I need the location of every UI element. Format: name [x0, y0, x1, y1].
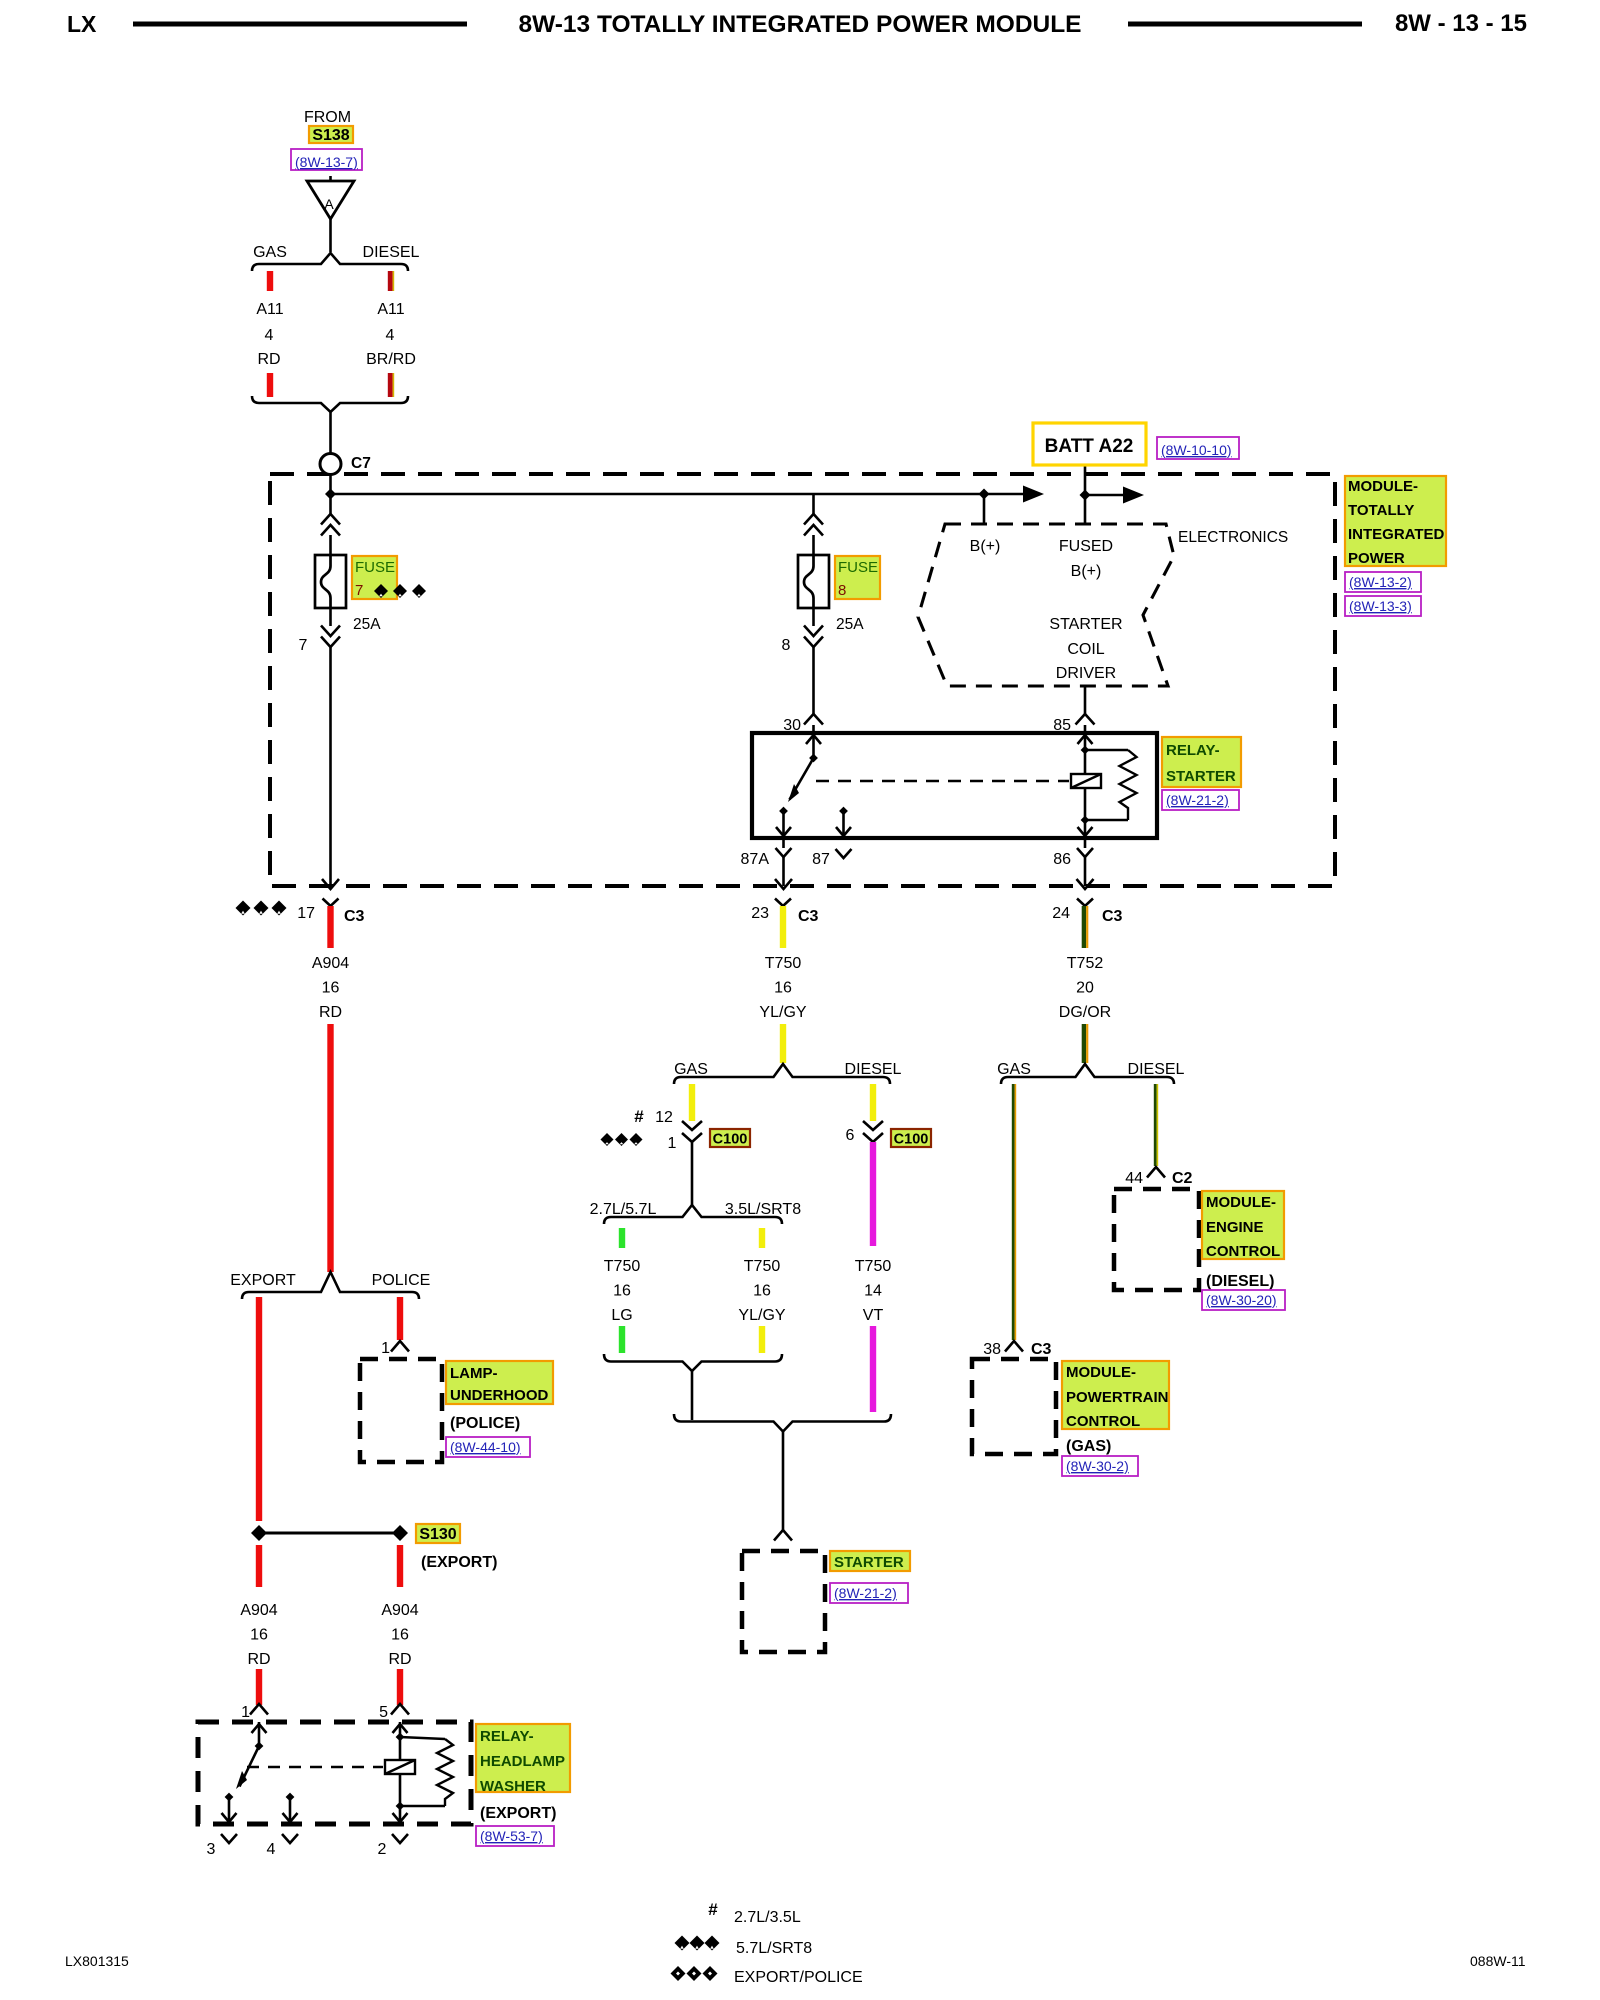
svg-text:HEADLAMP: HEADLAMP [480, 1753, 565, 1770]
svg-text:STARTER: STARTER [834, 1554, 904, 1571]
svg-text:B(+): B(+) [1071, 563, 1102, 580]
svg-text:BATT A22: BATT A22 [1045, 436, 1134, 457]
svg-text:STARTER: STARTER [1049, 616, 1122, 633]
svg-text:T750: T750 [744, 1258, 781, 1275]
svg-text:(8W-30-20): (8W-30-20) [1206, 1292, 1277, 1308]
svg-text:#: # [708, 1900, 718, 1919]
svg-text:B(+): B(+) [970, 538, 1001, 555]
svg-text:CONTROL: CONTROL [1066, 1413, 1140, 1430]
svg-text:POWER: POWER [1348, 550, 1405, 567]
svg-text:1: 1 [668, 1135, 677, 1152]
svg-text:UNDERHOOD: UNDERHOOD [450, 1387, 549, 1404]
svg-text:7: 7 [355, 582, 363, 599]
svg-text:YL/GY: YL/GY [759, 1004, 806, 1021]
svg-text:14: 14 [864, 1283, 882, 1300]
svg-text:BR/RD: BR/RD [366, 351, 416, 368]
svg-text:(8W-13-2): (8W-13-2) [1349, 574, 1412, 590]
svg-text:(EXPORT): (EXPORT) [421, 1554, 497, 1571]
svg-text:4: 4 [265, 327, 274, 344]
svg-text:C3: C3 [1031, 1341, 1052, 1358]
svg-text:38: 38 [983, 1341, 1001, 1358]
svg-text:INTEGRATED: INTEGRATED [1348, 526, 1445, 543]
svg-text:A: A [324, 196, 334, 212]
svg-text:WASHER: WASHER [480, 1778, 546, 1795]
svg-text:T750: T750 [604, 1258, 641, 1275]
svg-text:20: 20 [1076, 980, 1094, 997]
svg-text:(8W-13-3): (8W-13-3) [1349, 598, 1412, 614]
svg-text:2.7L/5.7L: 2.7L/5.7L [590, 1201, 657, 1218]
svg-text:(8W-21-2): (8W-21-2) [834, 1585, 897, 1601]
svg-text:C100: C100 [713, 1132, 748, 1148]
svg-text:(8W-30-2): (8W-30-2) [1066, 1458, 1129, 1474]
svg-text:5.7L/SRT8: 5.7L/SRT8 [736, 1940, 812, 1957]
svg-text:6: 6 [846, 1127, 855, 1144]
svg-text:LX: LX [67, 11, 97, 37]
svg-text:EXPORT/POLICE: EXPORT/POLICE [734, 1969, 863, 1986]
svg-text:GAS: GAS [674, 1061, 708, 1078]
svg-text:8: 8 [838, 582, 846, 599]
svg-text:1: 1 [241, 1704, 250, 1721]
svg-text:STARTER: STARTER [1166, 768, 1236, 785]
svg-text:A904: A904 [240, 1602, 277, 1619]
svg-text:YL/GY: YL/GY [738, 1307, 785, 1324]
svg-text:S130: S130 [419, 1526, 456, 1543]
svg-text:GAS: GAS [253, 244, 287, 261]
svg-text:1: 1 [381, 1340, 390, 1357]
svg-text:2: 2 [378, 1841, 387, 1858]
svg-text:(GAS): (GAS) [1066, 1438, 1111, 1455]
svg-text:C3: C3 [344, 908, 365, 925]
svg-text:(8W-21-2): (8W-21-2) [1166, 792, 1229, 808]
svg-text:87A: 87A [741, 851, 770, 868]
svg-text:3.5L/SRT8: 3.5L/SRT8 [725, 1201, 801, 1218]
svg-text:8: 8 [782, 637, 791, 654]
svg-text:#: # [634, 1107, 644, 1126]
svg-text:A11: A11 [256, 301, 283, 318]
svg-text:23: 23 [751, 905, 769, 922]
svg-text:16: 16 [613, 1283, 631, 1300]
svg-text:COIL: COIL [1067, 641, 1104, 658]
svg-text:GAS: GAS [997, 1061, 1031, 1078]
svg-text:T752: T752 [1067, 955, 1104, 972]
svg-text:86: 86 [1053, 851, 1071, 868]
svg-text:POWERTRAIN: POWERTRAIN [1066, 1389, 1169, 1406]
svg-text:DIESEL: DIESEL [363, 244, 420, 261]
svg-text:(DIESEL): (DIESEL) [1206, 1273, 1274, 1290]
svg-text:(8W-44-10): (8W-44-10) [450, 1439, 521, 1455]
svg-text:17: 17 [297, 905, 315, 922]
svg-text:EXPORT: EXPORT [230, 1272, 296, 1289]
svg-text:RD: RD [247, 1651, 270, 1668]
svg-text:8W - 13 - 15: 8W - 13 - 15 [1395, 10, 1527, 37]
svg-text:C3: C3 [798, 908, 819, 925]
svg-text:5: 5 [379, 1704, 388, 1721]
svg-text:4: 4 [267, 1841, 276, 1858]
svg-text:S138: S138 [312, 127, 349, 144]
svg-text:RD: RD [257, 351, 280, 368]
svg-text:088W-11: 088W-11 [1470, 1953, 1526, 1969]
svg-text:MODULE-: MODULE- [1206, 1194, 1276, 1211]
svg-text:RELAY-: RELAY- [1166, 742, 1220, 759]
svg-text:3: 3 [207, 1841, 216, 1858]
svg-text:16: 16 [250, 1627, 268, 1644]
svg-text:(8W-53-7): (8W-53-7) [480, 1828, 543, 1844]
svg-text:(POLICE): (POLICE) [450, 1415, 520, 1432]
svg-text:25A: 25A [353, 616, 381, 633]
svg-text:DIESEL: DIESEL [845, 1061, 902, 1078]
svg-text:4: 4 [386, 327, 395, 344]
svg-text:(8W-10-10): (8W-10-10) [1161, 442, 1232, 458]
svg-text:DIESEL: DIESEL [1128, 1061, 1185, 1078]
svg-text:ENGINE: ENGINE [1206, 1219, 1264, 1236]
svg-text:44: 44 [1125, 1170, 1143, 1187]
svg-text:16: 16 [753, 1283, 771, 1300]
svg-text:FROM: FROM [304, 109, 351, 126]
svg-text:POLICE: POLICE [372, 1272, 431, 1289]
svg-text:(EXPORT): (EXPORT) [480, 1805, 556, 1822]
svg-text:2.7L/3.5L: 2.7L/3.5L [734, 1909, 801, 1926]
svg-text:ELECTRONICS: ELECTRONICS [1178, 529, 1288, 546]
svg-text:FUSE: FUSE [355, 559, 395, 576]
svg-text:87: 87 [812, 851, 830, 868]
svg-text:24: 24 [1052, 905, 1070, 922]
svg-text:C100: C100 [894, 1132, 929, 1148]
svg-text:(8W-13-7): (8W-13-7) [295, 154, 358, 170]
svg-text:7: 7 [299, 637, 308, 654]
svg-text:VT: VT [863, 1307, 884, 1324]
svg-text:8W-13 TOTALLY INTEGRATED POWER: 8W-13 TOTALLY INTEGRATED POWER MODULE [518, 11, 1081, 38]
svg-text:MODULE-: MODULE- [1348, 478, 1418, 495]
svg-text:T750: T750 [855, 1258, 892, 1275]
svg-text:12: 12 [655, 1109, 673, 1126]
svg-text:16: 16 [391, 1627, 409, 1644]
svg-text:A11: A11 [377, 301, 404, 318]
svg-text:25A: 25A [836, 616, 864, 633]
svg-text:DG/OR: DG/OR [1059, 1004, 1111, 1021]
svg-text:FUSE: FUSE [838, 559, 878, 576]
svg-text:LX801315: LX801315 [65, 1953, 129, 1969]
svg-text:T750: T750 [765, 955, 802, 972]
svg-text:A904: A904 [312, 955, 349, 972]
svg-text:A904: A904 [381, 1602, 418, 1619]
svg-text:RD: RD [388, 1651, 411, 1668]
svg-text:RD: RD [319, 1004, 342, 1021]
svg-text:16: 16 [322, 980, 340, 997]
svg-text:LG: LG [611, 1307, 632, 1324]
svg-text:MODULE-: MODULE- [1066, 1364, 1136, 1381]
svg-text:C2: C2 [1172, 1170, 1193, 1187]
svg-text:C7: C7 [351, 455, 371, 472]
svg-text:CONTROL: CONTROL [1206, 1243, 1280, 1260]
svg-text:RELAY-: RELAY- [480, 1728, 534, 1745]
svg-text:LAMP-: LAMP- [450, 1365, 498, 1382]
svg-text:FUSED: FUSED [1059, 538, 1113, 555]
svg-text:TOTALLY: TOTALLY [1348, 502, 1414, 519]
svg-text:C3: C3 [1102, 908, 1123, 925]
svg-text:DRIVER: DRIVER [1056, 665, 1116, 682]
svg-text:16: 16 [774, 980, 792, 997]
